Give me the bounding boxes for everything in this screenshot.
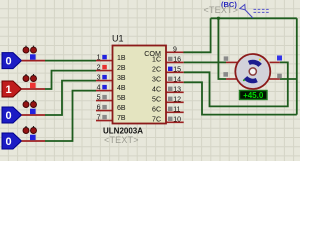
wire LS1 to pin 1B: [45, 60, 96, 62]
logicstate LS4 value 0: [2, 126, 45, 149]
motor pin indicator squares: [224, 56, 229, 60]
svg-text:4C: 4C: [152, 87, 161, 94]
motor center hole: [249, 68, 256, 75]
svg-text:0: 0: [6, 136, 12, 148]
svg-text:7C: 7C: [152, 117, 161, 124]
svg-text:1: 1: [97, 55, 101, 62]
logicstate LS3 value 0: [2, 100, 45, 123]
IC U1 body: [113, 46, 167, 124]
svg-text:3B: 3B: [117, 75, 126, 82]
svg-text:0: 0: [6, 110, 12, 122]
svg-text:<TEXT>: <TEXT>: [104, 135, 139, 145]
svg-text:1B: 1B: [117, 55, 126, 62]
wire motor bottom-right pin link: [280, 78, 297, 80]
IC U1 inner pin names right: [144, 49, 161, 124]
IC U1 inner pin names left: [117, 55, 126, 122]
wire LS2 to pin 2B: [45, 71, 96, 89]
svg-text:1C: 1C: [152, 57, 161, 64]
svg-text:3C: 3C: [152, 77, 161, 84]
probe dashed value lines: [254, 9, 270, 12]
wire junction branch down to motor bottom-left pin: [218, 18, 226, 79]
IC U1 pin stubs right: [166, 52, 184, 122]
wire pin 3C(14) out: [184, 82, 297, 114]
IC U1 pin indicator squares left: 1 blue,2 red,3 blue,4 blue,5-7 gray: [102, 55, 107, 119]
svg-text:15: 15: [173, 66, 181, 73]
svg-text:2: 2: [97, 65, 101, 72]
svg-text:7B: 7B: [117, 115, 126, 122]
motor rotor arcs: [246, 62, 261, 81]
svg-text:1: 1: [6, 84, 12, 96]
svg-text:11: 11: [173, 106, 180, 113]
svg-text:6: 6: [97, 105, 101, 112]
wire COM right drop: [296, 18, 298, 114]
svg-text:16: 16: [173, 56, 181, 63]
svg-text:2C: 2C: [152, 67, 161, 74]
wire pin 2C(15) out: [184, 62, 288, 106]
svg-text:9: 9: [173, 46, 177, 53]
svg-text:<TEXT>: <TEXT>: [204, 5, 239, 15]
svg-text:5B: 5B: [117, 95, 126, 102]
svg-text:6C: 6C: [152, 107, 161, 114]
svg-text:7: 7: [97, 115, 101, 122]
IC U1 pin numbers left: [97, 55, 101, 122]
wire LS3 to pin 3B: [45, 81, 96, 115]
junction at top rail: [217, 17, 220, 20]
svg-text:5C: 5C: [152, 97, 161, 104]
probe cone: [240, 5, 253, 19]
svg-text:12: 12: [173, 96, 181, 103]
logicstate LS1 value 0: [2, 46, 45, 69]
svg-text:+45.0: +45.0: [243, 91, 264, 100]
motor angle display: [240, 91, 268, 101]
svg-text:5: 5: [97, 95, 101, 102]
motor pin stubs: [226, 62, 280, 79]
motor body circle: [235, 54, 270, 89]
svg-text:6B: 6B: [117, 105, 126, 112]
svg-text:10: 10: [173, 116, 181, 123]
wire pin 1C(16) to motor top-left pin: [184, 61, 226, 63]
logicstate LS2 value 1: [2, 74, 45, 97]
IC U1 pin numbers right: [173, 46, 181, 123]
svg-text:U1: U1: [112, 34, 124, 44]
svg-text:3: 3: [97, 75, 101, 82]
svg-text:13: 13: [173, 86, 181, 93]
motor rotor marker dots: [259, 59, 261, 61]
svg-text:0: 0: [6, 56, 12, 68]
wire top rail: [211, 17, 297, 19]
wire LS4 to pin 4B: [45, 91, 96, 141]
svg-text:14: 14: [173, 76, 181, 83]
IC U1 pin stubs left: [96, 61, 113, 121]
svg-text:2B: 2B: [117, 65, 126, 72]
IC U1 pin indicator squares right: 16 gray,15 blue,14-10 gray: [168, 57, 173, 121]
svg-text:4: 4: [97, 85, 101, 92]
svg-text:4B: 4B: [117, 85, 126, 92]
wire COM pin9 up to top rail: [184, 18, 211, 52]
